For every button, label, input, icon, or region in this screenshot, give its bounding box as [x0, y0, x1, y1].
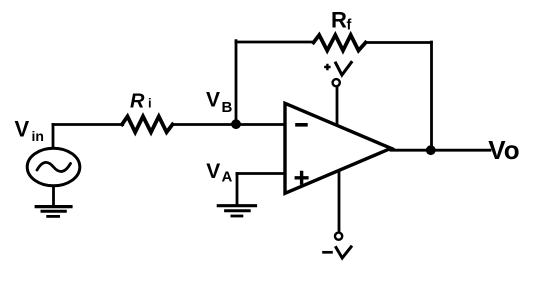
svg-text:A: A [222, 169, 233, 186]
svg-text:Vo: Vo [488, 135, 519, 165]
svg-text:V: V [15, 117, 30, 142]
svg-text:R: R [130, 90, 145, 112]
svg-text:V: V [206, 89, 220, 112]
svg-text:V: V [206, 160, 220, 183]
svg-text:B: B [222, 99, 233, 116]
svg-text:in: in [32, 128, 44, 144]
svg-text:f: f [347, 18, 352, 34]
svg-text:R: R [331, 7, 347, 32]
svg-text:i: i [148, 96, 152, 111]
